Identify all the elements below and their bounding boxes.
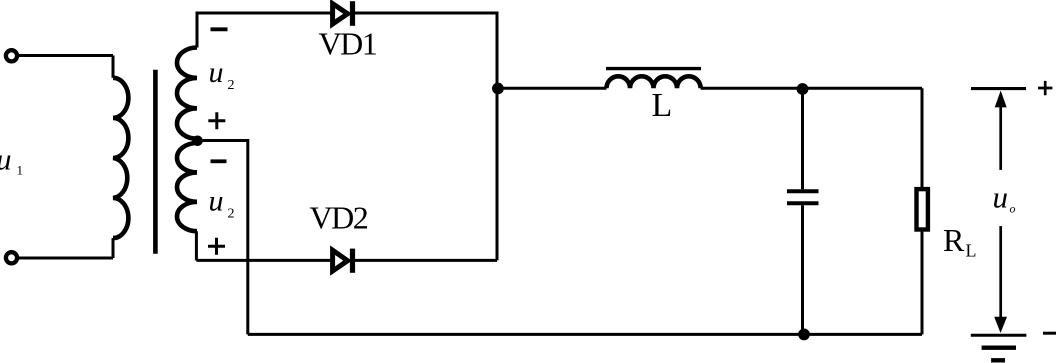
- diode VD2: [333, 249, 353, 273]
- output bottom bar / ground bar 1: [971, 334, 1027, 337]
- wire secondary to VD2: [196, 259, 332, 262]
- svg-text:1: 1: [17, 163, 24, 178]
- svg-text:L: L: [652, 87, 673, 124]
- junction node after diodes: [492, 83, 504, 95]
- svg-text:VD1: VD1: [319, 26, 377, 62]
- label uo: [993, 180, 1016, 216]
- capacitor plate bottom: [787, 201, 819, 205]
- transformer secondary bottom winding: [177, 143, 197, 231]
- polarity minus (output): [1043, 332, 1056, 335]
- output top bar: [971, 87, 1026, 90]
- wire resistor top lead: [921, 88, 924, 189]
- polarity plus (secondary top): [208, 112, 225, 129]
- output arrow shaft upper: [999, 104, 1002, 170]
- inductor L winding: [607, 76, 701, 88]
- svg-text:u: u: [993, 180, 1009, 215]
- label u1: [0, 142, 23, 178]
- transformer secondary top winding: [177, 48, 197, 139]
- output arrow up head: [995, 91, 1007, 108]
- ground bar 2: [982, 346, 1016, 350]
- wire capacitor bottom lead: [801, 205, 804, 334]
- polarity plus (secondary bottom): [208, 238, 225, 255]
- input terminal bottom: [6, 252, 17, 263]
- wire primary top lead: [112, 56, 115, 78]
- wire center tap to ground rail: [198, 141, 248, 335]
- svg-text:u: u: [209, 56, 224, 89]
- wire inductor to resistor branch: [701, 87, 922, 90]
- center tap junction: [192, 136, 203, 147]
- junction node bottom rail: [798, 329, 810, 341]
- junction node capacitor top: [797, 83, 809, 95]
- wire secondary top lead: [197, 13, 332, 48]
- output arrow shaft lower: [999, 226, 1002, 320]
- svg-text:2: 2: [228, 207, 235, 222]
- input terminal top: [6, 50, 17, 61]
- transformer primary winding: [113, 78, 128, 238]
- label RL: [943, 222, 977, 261]
- resistor RL body: [917, 189, 928, 229]
- wire bottom rail: [248, 333, 922, 336]
- wire VD1 to right corner: [352, 13, 497, 260]
- output arrow down head: [994, 317, 1007, 333]
- polarity minus (secondary top): [211, 27, 228, 31]
- svg-text:2: 2: [228, 78, 235, 93]
- label u2 top: [209, 56, 235, 93]
- wire bottom-left horizontal: [19, 257, 113, 260]
- transformer core: [153, 70, 158, 254]
- wire top-left horizontal: [19, 54, 113, 57]
- wire VD2 to right corner: [352, 259, 497, 262]
- wire capacitor top lead: [801, 89, 804, 189]
- inductor L core bar: [606, 67, 701, 70]
- svg-text:u: u: [209, 185, 224, 218]
- label u2 bottom: [209, 185, 235, 222]
- wire junction to inductor: [498, 87, 607, 90]
- ground bar 3: [991, 358, 1005, 362]
- svg-text:o: o: [1010, 202, 1016, 216]
- svg-text:VD2: VD2: [310, 200, 368, 236]
- capacitor plate top: [787, 189, 819, 193]
- svg-text:R: R: [943, 222, 965, 258]
- diode VD1: [333, 1, 353, 26]
- polarity plus (output): [1038, 81, 1052, 95]
- wire resistor bottom lead: [921, 230, 924, 335]
- wire primary bottom lead: [112, 238, 115, 258]
- svg-text:u: u: [0, 142, 12, 177]
- polarity minus (secondary bottom): [211, 159, 227, 163]
- wire secondary bottom lead: [195, 231, 198, 260]
- svg-text:L: L: [966, 241, 977, 261]
